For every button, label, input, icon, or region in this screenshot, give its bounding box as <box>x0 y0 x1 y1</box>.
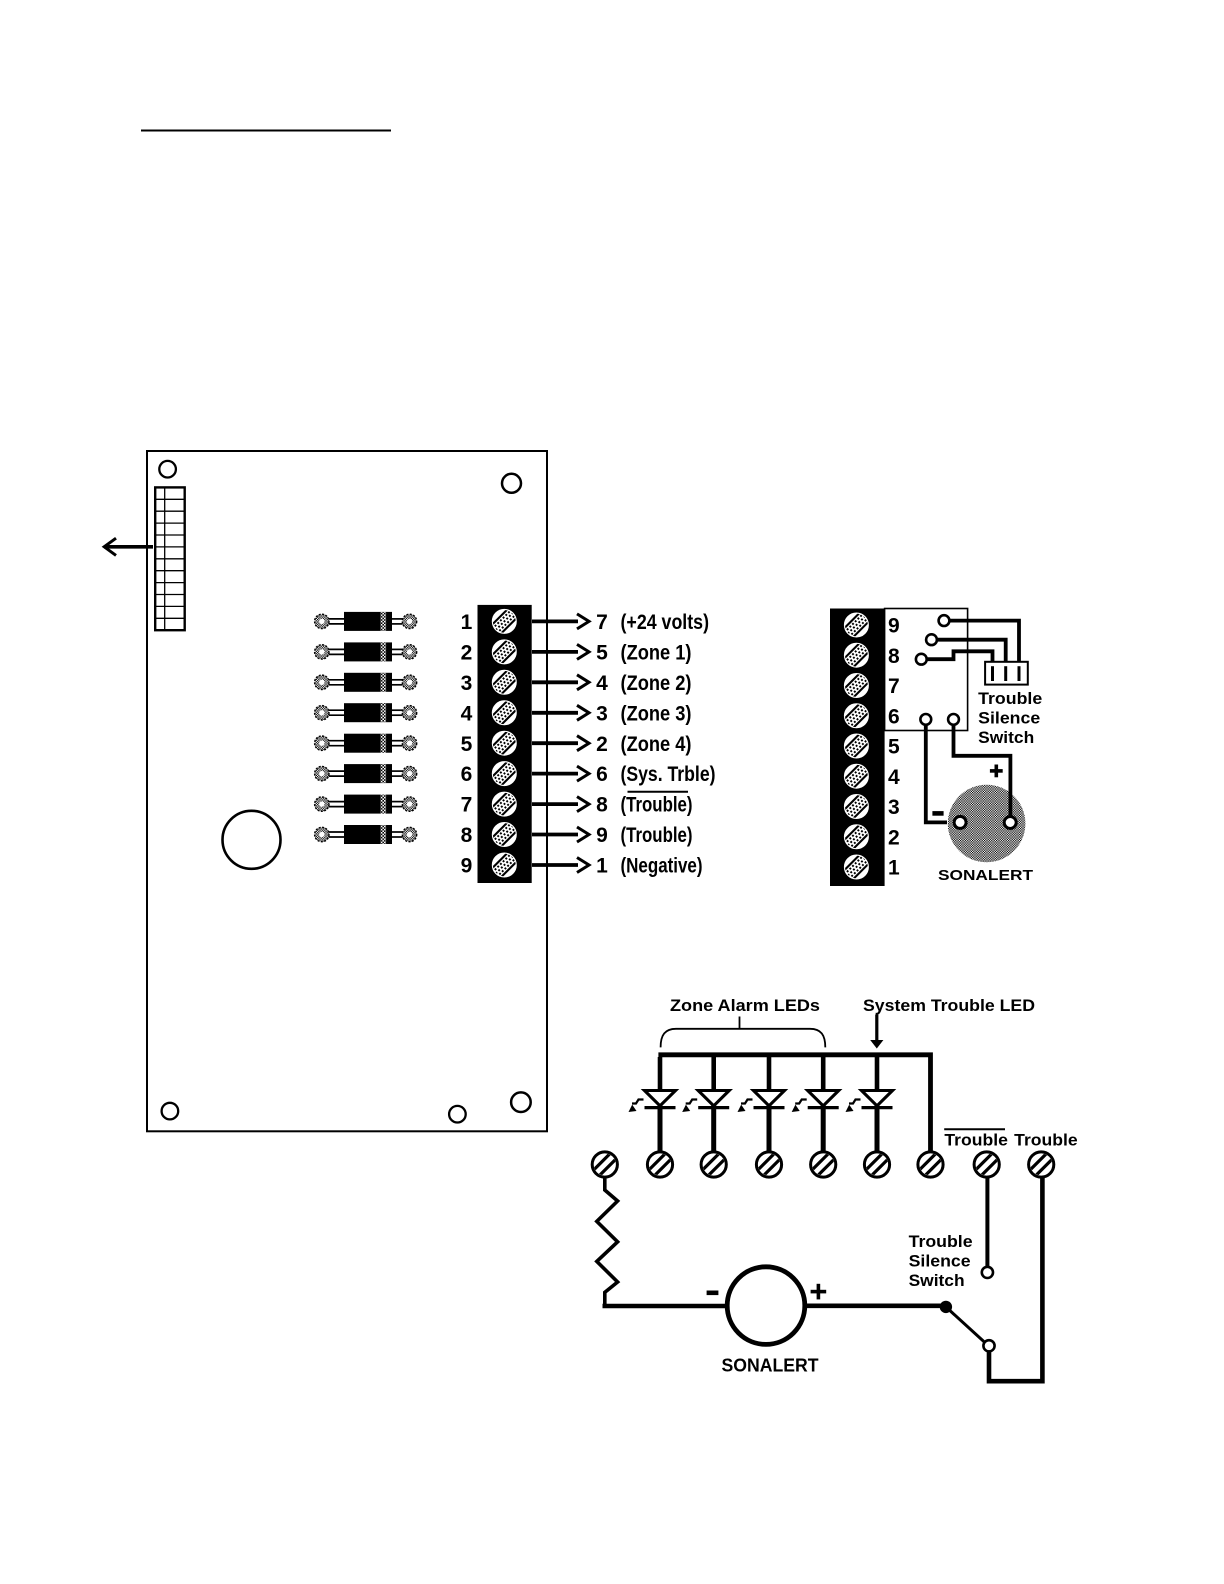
svg-text:Trouble: Trouble <box>944 1131 1008 1150</box>
svg-text:(Zone 2): (Zone 2) <box>621 672 692 695</box>
wire arrow from TB1 terminal 1 <box>532 614 589 629</box>
pin 8 solder terminal <box>926 634 937 645</box>
wire arrow from TB1 terminal 9 <box>532 858 589 873</box>
zone 4 LED <box>792 1057 839 1153</box>
TB1 screw terminal 5 <box>490 729 519 758</box>
svg-text:Trouble: Trouble <box>909 1232 973 1251</box>
TB1 screw terminal 4 <box>490 698 519 727</box>
svg-text:7: 7 <box>461 794 473 817</box>
diode D8 <box>315 825 417 844</box>
diode D6 <box>315 764 417 783</box>
svg-text:8: 8 <box>888 645 900 668</box>
svg-text:(+24 volts): (+24 volts) <box>621 611 710 634</box>
wire arrow from TB1 terminal 4 <box>532 705 589 720</box>
svg-text:2: 2 <box>596 733 608 756</box>
TB1 screw terminal 7 <box>490 790 519 819</box>
sonalert B2 <box>727 1267 805 1345</box>
wire arrow from TB1 terminal 7 <box>532 797 589 812</box>
diodes D1-D8 <box>315 612 417 844</box>
resistor R1 <box>597 1178 618 1304</box>
svg-text:(Zone 4): (Zone 4) <box>621 733 692 756</box>
sonalert negative pin <box>954 816 966 828</box>
svg-text:7: 7 <box>888 675 900 698</box>
svg-text:5: 5 <box>596 642 608 665</box>
TB2 screw terminal 9 <box>842 611 871 640</box>
panel terminal 2 <box>647 1152 672 1177</box>
TB2 screw terminal 4 <box>842 762 871 791</box>
panel terminal 4 <box>756 1152 781 1177</box>
edge connector J1 <box>155 487 185 630</box>
svg-text:Trouble: Trouble <box>978 689 1042 708</box>
svg-text:8: 8 <box>596 794 608 817</box>
plus sign <box>990 765 1003 778</box>
TB2 screw terminal 7 <box>842 671 871 700</box>
svg-text:(Trouble): (Trouble) <box>621 794 693 817</box>
panel terminal 3 <box>701 1152 726 1177</box>
switch pivot junction <box>940 1301 952 1313</box>
svg-text:6: 6 <box>888 705 900 728</box>
TB2 screw terminal 1 <box>842 853 871 882</box>
TB2 screw terminal 8 <box>842 641 871 670</box>
panel terminal 6 <box>864 1152 889 1177</box>
diode D5 <box>315 734 417 753</box>
svg-text:5: 5 <box>461 733 473 756</box>
panel terminal 9 <box>1029 1152 1054 1177</box>
wire arrow from TB1 terminal 6 <box>532 766 589 781</box>
mounting hole top-right <box>502 474 521 493</box>
svg-text:9: 9 <box>596 824 608 847</box>
svg-text:3: 3 <box>888 796 900 819</box>
svg-text:1: 1 <box>888 857 900 880</box>
panel terminal 1 <box>592 1152 617 1177</box>
wire arrow from TB1 terminal 2 <box>532 644 589 659</box>
svg-text:4: 4 <box>461 702 473 725</box>
TB2 screw terminal 3 <box>842 792 871 821</box>
diode D4 <box>315 703 417 722</box>
svg-text:Silence: Silence <box>909 1251 971 1270</box>
svg-text:(Trouble): (Trouble) <box>621 824 693 847</box>
TB1 screw terminal 8 <box>490 820 519 849</box>
TB1 screw terminal 1 <box>490 607 519 636</box>
TB2 screw terminal 6 <box>842 701 871 730</box>
brace over zone alarm LEDs <box>661 1029 826 1048</box>
trouble silence switch S1 body <box>985 662 1028 685</box>
wire from pin 8 to trouble silence switch <box>937 640 1006 662</box>
svg-text:1: 1 <box>596 855 608 878</box>
sonalert positive pin <box>1004 817 1016 829</box>
svg-text:(Zone 3): (Zone 3) <box>621 702 692 725</box>
svg-text:6: 6 <box>596 763 608 786</box>
diode D2 <box>315 642 417 661</box>
diode D1 <box>315 612 417 631</box>
svg-text:9: 9 <box>888 615 900 638</box>
minus sign <box>707 1291 719 1296</box>
system trouble LED <box>846 1057 893 1153</box>
svg-text:(Negative): (Negative) <box>621 855 703 878</box>
svg-text:SONALERT: SONALERT <box>722 1355 819 1375</box>
zone 2 LED <box>682 1057 729 1153</box>
pin 6b solder terminal <box>948 714 959 725</box>
mounting hole bottom-right <box>511 1092 531 1112</box>
panel terminal 7 <box>918 1152 943 1177</box>
svg-text:5: 5 <box>888 736 900 759</box>
title underline <box>141 130 391 132</box>
svg-text:7: 7 <box>596 611 608 634</box>
wire from pin 9 to trouble silence switch <box>950 621 1020 662</box>
arrow to system trouble LED <box>875 1015 878 1042</box>
TB1 screw terminal 2 <box>490 638 519 667</box>
TB2 screw terminal 5 <box>842 732 871 761</box>
overline for (Trouble-bar) label <box>628 791 689 793</box>
wire arrow from TB1 terminal 3 <box>532 675 589 690</box>
minus sign <box>932 811 943 816</box>
svg-text:Zone Alarm LEDs: Zone Alarm LEDs <box>670 996 820 1015</box>
diode D7 <box>315 795 417 814</box>
anode bus wire <box>658 1055 930 1152</box>
terminal block TB2 <box>830 609 885 887</box>
TB2 screw terminal 2 <box>842 822 871 851</box>
svg-text:Switch: Switch <box>978 728 1034 747</box>
svg-text:System Trouble LED: System Trouble LED <box>863 996 1035 1015</box>
svg-text:4: 4 <box>888 766 900 789</box>
wire Trouble-bar terminal to silence contact <box>985 1178 989 1267</box>
wire sonalert to switch pivot <box>805 1304 943 1309</box>
zone 3 LED <box>738 1057 785 1153</box>
pin 7 solder terminal <box>916 654 927 665</box>
svg-text:(Zone 1): (Zone 1) <box>621 642 692 665</box>
large hole on PCB <box>223 811 281 869</box>
PCB outline <box>147 451 547 1131</box>
panel terminal 5 <box>811 1152 836 1177</box>
wire switch to Trouble terminal <box>989 1178 1042 1381</box>
svg-text:1: 1 <box>461 611 473 634</box>
svg-text:Silence: Silence <box>978 708 1040 727</box>
wire arrow from TB1 terminal 5 <box>532 736 589 751</box>
switch blade <box>946 1307 986 1344</box>
mounting hole top-left <box>159 461 176 478</box>
svg-text:(Sys. Trble): (Sys. Trble) <box>621 763 716 786</box>
svg-text:8: 8 <box>461 824 473 847</box>
wire from pin 6b to sonalert positive <box>954 725 1011 818</box>
left-pointing arrow at edge connector <box>104 538 153 555</box>
panel terminal 8 <box>974 1152 999 1177</box>
svg-text:2: 2 <box>888 826 900 849</box>
mounting hole bottom-middle <box>449 1106 466 1123</box>
zone 1 LED <box>629 1057 676 1153</box>
svg-text:3: 3 <box>461 672 473 695</box>
svg-text:4: 4 <box>596 672 608 695</box>
wire arrow from TB1 terminal 8 <box>532 827 589 842</box>
mounting hole bottom-left <box>162 1103 179 1120</box>
pin 6a solder terminal <box>920 714 931 725</box>
diode D3 <box>315 673 417 692</box>
svg-text:2: 2 <box>461 642 473 665</box>
plus sign <box>811 1284 827 1300</box>
svg-text:Trouble: Trouble <box>1014 1131 1077 1150</box>
svg-text:6: 6 <box>461 763 473 786</box>
TB1 screw terminal 6 <box>490 759 519 788</box>
svg-text:3: 3 <box>596 702 608 725</box>
trouble silence switch contact <box>982 1267 993 1278</box>
overline for Trouble-bar terminal label <box>944 1128 1005 1130</box>
sonalert B1 (shaded) <box>948 785 1026 863</box>
terminal block TB1 <box>478 605 532 883</box>
TB1 screw terminal 9 <box>490 851 519 880</box>
pin 9 solder terminal <box>939 615 950 626</box>
TB1 screw terminal 3 <box>490 668 519 697</box>
wire from pin 7 to trouble silence switch <box>927 651 993 662</box>
switch throw contact <box>983 1340 994 1351</box>
svg-text:SONALERT: SONALERT <box>938 867 1033 884</box>
wiring box outline <box>885 609 968 731</box>
svg-text:9: 9 <box>461 855 473 878</box>
svg-text:Switch: Switch <box>909 1271 965 1290</box>
wire from pin 6a to sonalert negative <box>926 725 947 823</box>
wire resistor to sonalert <box>603 1304 729 1309</box>
